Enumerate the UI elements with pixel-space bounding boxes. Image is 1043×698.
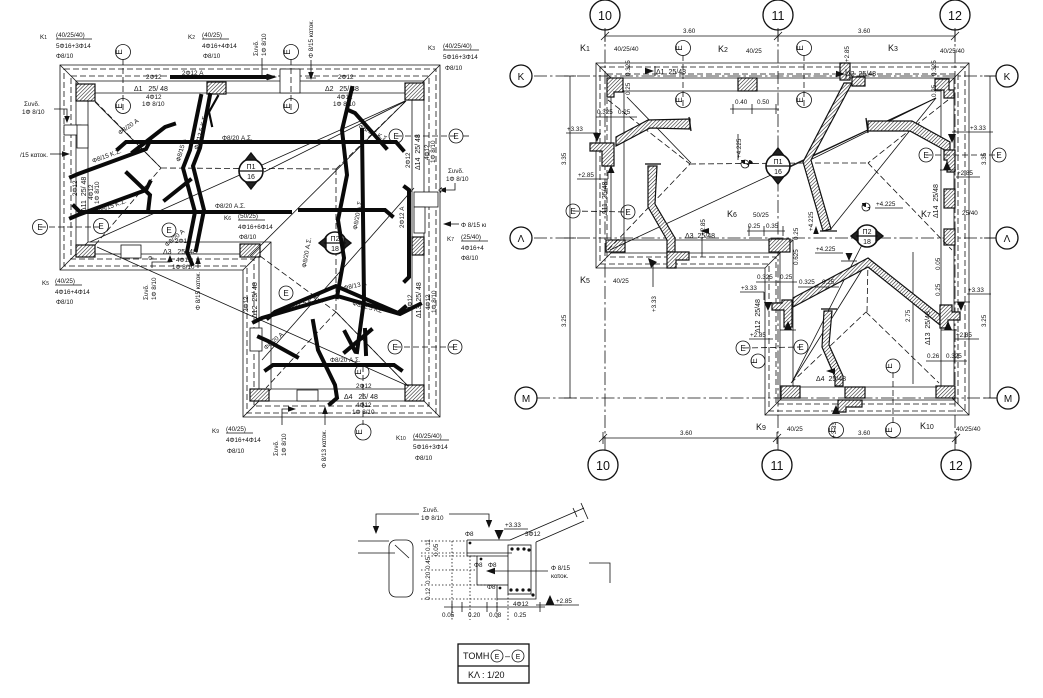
level +2.85 section xyxy=(536,595,579,605)
svg-text:2Φ12: 2Φ12 xyxy=(338,74,354,81)
beam D2 top pieces xyxy=(840,63,865,86)
svg-text:16: 16 xyxy=(247,174,255,181)
svg-text:Φ8/10: Φ8/10 xyxy=(203,53,221,60)
grid line K horizontal xyxy=(534,75,996,77)
ridge horizontal xyxy=(161,168,336,169)
svg-text:4Φ16+4Φ14: 4Φ16+4Φ14 xyxy=(202,43,237,50)
svg-text:+3.33: +3.33 xyxy=(968,287,984,294)
svg-text:0.08: 0.08 xyxy=(489,612,502,619)
svg-text:4Φ16+6Φ14: 4Φ16+6Φ14 xyxy=(238,224,273,231)
svg-text:0.325: 0.325 xyxy=(757,274,773,281)
svg-text:E: E xyxy=(355,429,364,434)
svg-text:Δ11 25/48: Δ11 25/48 xyxy=(602,182,609,215)
leader F8/15 katoch section xyxy=(486,563,610,583)
hip BR lower part xyxy=(336,312,408,386)
svg-text:Π1: Π1 xyxy=(774,159,783,166)
grid bubble 11 bottom xyxy=(762,450,792,480)
section circle E mid xyxy=(279,286,293,300)
svg-text:40/25: 40/25 xyxy=(746,48,762,55)
svg-text:0.25: 0.25 xyxy=(625,82,632,95)
label K7 right plan xyxy=(921,209,978,219)
dim 0.40 0.50 top xyxy=(730,99,779,114)
svg-text:0.325: 0.325 xyxy=(931,60,938,76)
labels D11-D14 vertical right plan xyxy=(602,182,940,345)
svg-text:3.60: 3.60 xyxy=(858,28,871,35)
svg-text:Δ14 25/ 48: Δ14 25/ 48 xyxy=(415,134,422,170)
bar bottom diag 2 xyxy=(345,330,371,352)
leader sind right xyxy=(438,168,469,193)
dim 0.325 0.25 top-left xyxy=(596,60,637,117)
svg-text:0.45: 0.45 xyxy=(425,556,432,569)
leader sind top-left xyxy=(22,101,70,123)
svg-text:+2.85: +2.85 xyxy=(844,46,851,62)
label K5 right plan xyxy=(580,275,629,285)
label K2 right plan xyxy=(718,44,762,55)
leader F8/15 katoch wing xyxy=(195,256,202,310)
thin diagonal beam lines xyxy=(90,101,414,386)
svg-text:Φ8/20 A.Σ.: Φ8/20 A.Σ. xyxy=(222,135,253,142)
section circle rotated-E wing xyxy=(750,354,765,368)
chevron left foot xyxy=(772,300,792,327)
svg-text:40/25: 40/25 xyxy=(787,426,803,433)
label block K1 xyxy=(40,32,92,60)
svg-text:50/25: 50/25 xyxy=(753,212,769,219)
label K1 right plan xyxy=(580,43,639,53)
svg-text:Φ 8/13 κατοκ.: Φ 8/13 κατοκ. xyxy=(321,429,328,468)
label K6 right plan xyxy=(727,209,785,236)
grid line M horizontal xyxy=(537,397,997,399)
dim 0.325 0.25 top-right xyxy=(931,60,938,97)
diagonal long TL-BR wing xyxy=(90,101,405,242)
svg-text:E: E xyxy=(115,49,124,54)
rebar dots top xyxy=(469,542,531,590)
svg-text:κατοκ.: κατοκ. xyxy=(551,573,569,580)
svg-text:Δ4 25/ 48: Δ4 25/ 48 xyxy=(344,394,378,401)
level +2.85 rotated D2 xyxy=(844,46,851,62)
svg-text:0.12: 0.12 xyxy=(425,587,432,600)
beam label D12 vertical notch edge xyxy=(243,282,259,318)
svg-text:+2.85: +2.85 xyxy=(556,598,572,605)
bar center tall zigzag 1 xyxy=(337,88,352,297)
svg-text:Φ8/20 A.Σ.: Φ8/20 A.Σ. xyxy=(330,357,361,364)
svg-text:K: K xyxy=(518,72,525,83)
beam TL end tick xyxy=(689,117,691,131)
svg-text:0.50: 0.50 xyxy=(757,99,770,106)
svg-text:1Φ 8/10: 1Φ 8/10 xyxy=(431,290,438,313)
svg-text:10: 10 xyxy=(598,9,612,23)
svg-text:1Φ 8/10: 1Φ 8/10 xyxy=(430,140,437,163)
svg-text:0.25: 0.25 xyxy=(822,279,835,286)
svg-text:+4.225: +4.225 xyxy=(808,211,815,231)
svg-text:1Φ 8/10: 1Φ 8/10 xyxy=(281,433,288,456)
hip TR xyxy=(336,101,406,169)
wall dashed ring 2 right plan xyxy=(607,74,958,404)
svg-text:Φ8: Φ8 xyxy=(465,531,474,538)
grid bubble M left xyxy=(515,387,537,409)
svg-text:Δ2 25/ 48: Δ2 25/ 48 xyxy=(325,86,359,93)
section circles E right pair upper xyxy=(389,129,470,143)
svg-text:2Φ12: 2Φ12 xyxy=(72,180,79,196)
bar annotation texts xyxy=(91,70,406,364)
beam TR end tick xyxy=(866,118,868,133)
svg-text:11: 11 xyxy=(772,9,785,23)
level node +4.225 P2 xyxy=(862,201,903,211)
beam label D2 xyxy=(325,74,359,108)
column K9 bottom-left of lower part xyxy=(250,389,269,401)
svg-text:Δ13 25/ 48: Δ13 25/ 48 xyxy=(416,282,423,318)
opening rect bottom band xyxy=(297,390,318,401)
svg-text:(40/25/40): (40/25/40) xyxy=(413,433,442,440)
label K3 right plan xyxy=(888,43,965,55)
svg-text:K10: K10 xyxy=(396,435,406,442)
svg-text:E: E xyxy=(885,427,894,432)
svg-text:2Φ12 A: 2Φ12 A xyxy=(399,206,406,228)
stirrup rect xyxy=(508,545,531,594)
hatched chevron beam bottom xyxy=(793,258,940,325)
level +2.85 bottom-left xyxy=(749,321,796,339)
bar 2F12A top xyxy=(172,74,277,80)
svg-text:–: – xyxy=(505,651,510,661)
hip notch corner xyxy=(260,256,336,312)
column K3 top-right xyxy=(405,83,424,100)
svg-text:Φ8/10: Φ8/10 xyxy=(239,234,257,241)
hip BL lower part xyxy=(266,312,336,388)
node P1 xyxy=(239,153,263,189)
leader sind with brackets xyxy=(373,507,492,534)
chevron right foot xyxy=(940,305,960,328)
svg-text:Δ12 25/ 48: Δ12 25/ 48 xyxy=(252,282,259,318)
node P2 right plan xyxy=(851,225,883,247)
svg-text:3.60: 3.60 xyxy=(683,28,696,35)
beam label D1 xyxy=(134,74,168,108)
svg-text:5Φ16+3Φ14: 5Φ16+3Φ14 xyxy=(56,43,91,50)
svg-text:Π1: Π1 xyxy=(247,164,256,171)
svg-text:E: E xyxy=(570,207,575,216)
svg-text:4Φ16+4Φ14: 4Φ16+4Φ14 xyxy=(226,437,261,444)
svg-text:Λ: Λ xyxy=(1004,234,1011,245)
section circles rotated-E top pair 2 xyxy=(283,45,298,115)
svg-text:+4.225: +4.225 xyxy=(816,246,836,253)
label K10 right plan xyxy=(920,421,981,433)
beam band outer right plan xyxy=(611,78,954,400)
svg-text:E: E xyxy=(393,132,398,141)
section circles rotated-E bottom xyxy=(354,365,371,440)
svg-text:18: 18 xyxy=(331,246,339,253)
label block K5 xyxy=(42,278,90,306)
leader F8/15 katoch left xyxy=(20,151,70,159)
svg-text:40/25/40: 40/25/40 xyxy=(614,46,639,53)
svg-text:K2: K2 xyxy=(188,34,195,41)
beam TL foot xyxy=(590,143,614,166)
svg-text:4Φ12: 4Φ12 xyxy=(356,402,372,409)
svg-text:φ: φ xyxy=(147,256,154,260)
grid bubble L left xyxy=(510,227,532,249)
svg-text:2Φ12: 2Φ12 xyxy=(405,152,412,168)
vertical dim texts xyxy=(425,539,440,600)
svg-text:Δ11 25/ 48: Δ11 25/ 48 xyxy=(81,177,88,212)
dim 0.325 0.25 mid lower xyxy=(798,279,839,287)
opening rects left band xyxy=(64,125,81,135)
svg-text:Φ8: Φ8 xyxy=(488,562,497,569)
svg-text:0.25: 0.25 xyxy=(618,109,631,116)
svg-text:E: E xyxy=(166,226,171,235)
bar F8/20 AS lower long xyxy=(266,365,401,370)
bar mid-left short xyxy=(165,180,190,200)
svg-text:Φ 8/15 κατοκ.: Φ 8/15 κατοκ. xyxy=(308,19,315,58)
column K7 right edge xyxy=(412,237,424,255)
column M-row right right plan xyxy=(936,386,955,398)
grid bubble L right xyxy=(996,227,1018,249)
bar bottom short vertical xyxy=(345,332,355,351)
level +2.85 rotated D3 xyxy=(700,219,707,257)
svg-text:E: E xyxy=(452,343,457,352)
bottom dim line xyxy=(442,602,545,619)
roof dashed hip/ridge lines xyxy=(95,101,408,388)
grid bubble 10 top xyxy=(590,0,620,30)
svg-text:1Φ 8/10: 1Φ 8/10 xyxy=(352,409,375,416)
column K2 top-middle xyxy=(207,82,226,94)
column right edge mid right plan xyxy=(944,189,955,208)
column K5-row wing bottom-left xyxy=(76,245,95,257)
level +2.85 top-right xyxy=(940,161,980,177)
svg-text:0.25: 0.25 xyxy=(793,227,800,240)
svg-text:0.25: 0.25 xyxy=(931,84,938,97)
svg-text:E: E xyxy=(453,132,458,141)
grid bubble M right xyxy=(997,387,1019,409)
svg-text:E: E xyxy=(516,654,521,661)
beam TL foot arrow xyxy=(608,165,615,173)
grid bubble K left xyxy=(510,65,532,87)
svg-text:E: E xyxy=(675,97,684,102)
svg-text:Συνδ.: Συνδ. xyxy=(24,101,40,108)
svg-text:E: E xyxy=(354,369,363,374)
beam label D3 xyxy=(163,238,197,271)
svg-text:+2.85: +2.85 xyxy=(956,332,972,339)
bar chevron 2 F8/12.5KS xyxy=(254,296,420,322)
diagonal TR to notch xyxy=(250,101,406,256)
svg-text:3.25: 3.25 xyxy=(981,314,988,327)
svg-text:Π2: Π2 xyxy=(331,236,340,243)
label block K7 xyxy=(447,234,488,262)
grid bubble K right xyxy=(996,65,1018,87)
beam label D13 vertical right edge lower xyxy=(407,282,438,318)
label block K9 xyxy=(212,426,261,455)
beam band inner right plan xyxy=(624,91,941,387)
beam D3 foot xyxy=(667,252,689,268)
svg-text:11: 11 xyxy=(771,459,784,473)
svg-text:+2.85: +2.85 xyxy=(578,172,594,179)
bar pair left diagonals xyxy=(71,141,150,177)
level mark +4.225 rotated near P1 xyxy=(808,211,819,234)
bar F8/20 AS upper long xyxy=(118,142,403,150)
label K9 right plan xyxy=(756,422,803,433)
svg-text:Συνδ.: Συνδ. xyxy=(273,440,280,456)
svg-text:E: E xyxy=(392,343,397,352)
column L-row right edge right plan xyxy=(944,229,955,245)
bar mid-left bent xyxy=(127,173,150,212)
svg-text:Φ8/10: Φ8/10 xyxy=(56,299,74,306)
svg-text:E: E xyxy=(98,222,103,231)
bar bottom S xyxy=(313,321,337,404)
svg-text:+3.33: +3.33 xyxy=(741,285,757,292)
svg-text:1Φ 8/10: 1Φ 8/10 xyxy=(94,181,101,204)
svg-text:(40/25): (40/25) xyxy=(55,278,75,285)
beam D4 top T xyxy=(821,308,837,310)
svg-text:Συνδ.: Συνδ. xyxy=(423,507,439,514)
svg-text:12: 12 xyxy=(949,459,963,473)
svg-text:(40/25/40): (40/25/40) xyxy=(56,32,85,39)
bar right edge vertical xyxy=(405,187,409,281)
svg-text:E: E xyxy=(740,344,745,353)
bar bottom vertical 2 xyxy=(365,330,366,354)
wall outer boundary xyxy=(60,65,440,417)
beam section outline xyxy=(510,508,584,540)
svg-text:K1: K1 xyxy=(40,34,47,41)
svg-text:+3.33: +3.33 xyxy=(567,126,583,133)
column section rounded rect xyxy=(389,540,413,597)
svg-text:0.11: 0.11 xyxy=(425,539,432,551)
level node +4.225 mid xyxy=(736,134,753,168)
svg-text:4Φ12: 4Φ12 xyxy=(337,94,353,101)
svg-text:M: M xyxy=(1004,394,1012,405)
svg-text:K5: K5 xyxy=(42,280,49,287)
section circles E right plan left pair xyxy=(566,204,635,219)
svg-text:2Φ12: 2Φ12 xyxy=(243,296,250,312)
beam label D14 vertical right edge xyxy=(405,134,437,170)
section circles E right plan lower-left pair xyxy=(736,340,808,355)
svg-text:K9: K9 xyxy=(212,428,219,435)
svg-text:4Φ16+4: 4Φ16+4 xyxy=(461,245,484,252)
section circle rotated-E bottom mid xyxy=(828,423,843,438)
bar TL short diagonal xyxy=(133,124,174,152)
svg-text:0.325: 0.325 xyxy=(597,109,613,116)
svg-text:Λ: Λ xyxy=(518,234,525,245)
svg-text:E: E xyxy=(625,208,630,217)
svg-text:Φ8/10: Φ8/10 xyxy=(415,455,433,462)
svg-text:E: E xyxy=(750,358,759,363)
node P2 xyxy=(319,232,351,254)
svg-text:2Φ12: 2Φ12 xyxy=(146,74,162,81)
diagonal long wing to BR xyxy=(97,247,406,385)
node P1 right plan xyxy=(766,148,790,184)
level +3.33 bottom mid rotated xyxy=(831,405,840,438)
corner miters right plan xyxy=(596,63,969,415)
column K10 bottom-right xyxy=(405,385,424,401)
opening rect top band xyxy=(280,69,300,93)
level +3.33 bottom-right chevron xyxy=(954,287,991,311)
corner miter lines xyxy=(60,65,440,417)
leader F8/15 katoch top rotated xyxy=(306,19,316,80)
level +2.85 top-left xyxy=(577,172,608,179)
svg-text:3.60: 3.60 xyxy=(858,430,871,437)
svg-text:(25/40): (25/40) xyxy=(461,234,481,241)
svg-text:0.25: 0.25 xyxy=(780,274,793,281)
svg-text:4Φ12: 4Φ12 xyxy=(176,257,192,264)
bar TR diagonal xyxy=(348,110,386,148)
grid line 10 vertical xyxy=(604,28,606,452)
svg-text:0.40: 0.40 xyxy=(735,99,748,106)
svg-text:Δ12 25/48: Δ12 25/48 xyxy=(755,299,762,333)
svg-text:Συνδ.: Συνδ. xyxy=(448,168,464,175)
svg-text:Φ8/20 A.Σ.: Φ8/20 A.Σ. xyxy=(215,203,246,210)
level +2.85 bottom-right xyxy=(941,321,979,339)
bottom dimension line xyxy=(599,432,960,444)
section circles E right pair lower xyxy=(388,340,462,354)
svg-text:Συνδ.: Συνδ. xyxy=(143,284,150,300)
section circles rotated-E bottom right plan xyxy=(885,359,900,438)
svg-text:3.35: 3.35 xyxy=(561,152,568,165)
hatched diagonal beam D2 xyxy=(803,83,852,231)
roof dashed lines right plan xyxy=(608,100,952,383)
svg-text:+3.33: +3.33 xyxy=(505,522,521,529)
svg-text:E: E xyxy=(495,654,500,661)
svg-text:2Φ12: 2Φ12 xyxy=(356,383,372,390)
svg-text:25/40: 25/40 xyxy=(962,210,978,217)
svg-text:0.325: 0.325 xyxy=(799,279,815,286)
label block K2 xyxy=(188,32,237,60)
leader F8/13 katoch bottom xyxy=(321,406,328,468)
svg-text:E: E xyxy=(115,103,124,108)
svg-text:1Φ 8/10: 1Φ 8/10 xyxy=(333,101,356,108)
svg-text:+4.225: +4.225 xyxy=(876,201,896,208)
section circles E right plan right pair xyxy=(919,148,1006,162)
svg-text:Φ8/10: Φ8/10 xyxy=(445,65,463,72)
svg-text:Δ1 25/ 48: Δ1 25/ 48 xyxy=(134,86,168,93)
grid line L horizontal xyxy=(534,237,996,239)
svg-text:M: M xyxy=(522,394,530,405)
svg-text:E: E xyxy=(37,223,42,232)
grid bubble 12 top xyxy=(940,0,970,30)
beam D2 bottom T xyxy=(820,230,837,232)
title box xyxy=(458,644,529,683)
svg-text:K7: K7 xyxy=(447,236,454,243)
beam band inner line xyxy=(88,93,412,389)
svg-text:Φ 8/15 κι: Φ 8/15 κι xyxy=(461,222,487,229)
section circle E mid-left xyxy=(162,223,176,237)
svg-text:Δ3 25/48: Δ3 25/48 xyxy=(685,233,715,240)
svg-text:3Φ12: 3Φ12 xyxy=(525,531,541,538)
beam label D11 vertical left edge xyxy=(72,177,101,212)
svg-text:Δ3 25/ 48: Δ3 25/ 48 xyxy=(163,249,197,256)
column M-row left right plan xyxy=(781,386,800,398)
bar F8/20 AS middle long xyxy=(74,206,392,216)
svg-text:1Φ 8/10: 1Φ 8/10 xyxy=(142,101,165,108)
svg-text:3.60: 3.60 xyxy=(680,430,693,437)
wall dashed ring 1 xyxy=(64,69,436,413)
hip TL xyxy=(95,101,161,168)
wall dashed ring 1 right plan xyxy=(600,67,965,411)
svg-text:Δ14 25/48: Δ14 25/48 xyxy=(933,184,940,218)
opening rect wing bottom band xyxy=(121,245,141,258)
slab soffit line xyxy=(467,552,512,554)
svg-text:1Φ 8/10: 1Φ 8/10 xyxy=(446,176,469,183)
svg-text:E: E xyxy=(885,363,894,368)
svg-text:16: 16 xyxy=(774,169,782,176)
beam TR foot xyxy=(944,150,955,172)
level +3.33 bottom-left chevron xyxy=(740,285,772,311)
svg-text:10: 10 xyxy=(596,459,610,473)
svg-text:+3.33: +3.33 xyxy=(831,422,838,438)
right dimension line xyxy=(984,76,996,398)
svg-text:1Φ 8/10: 1Φ 8/10 xyxy=(172,264,195,271)
svg-text:2Φ12: 2Φ12 xyxy=(407,294,414,310)
svg-text:0.325: 0.325 xyxy=(946,353,962,360)
svg-text:40/25: 40/25 xyxy=(613,278,629,285)
svg-text:K3: K3 xyxy=(428,45,435,52)
svg-text:3.35: 3.35 xyxy=(981,152,988,165)
thin diagonals right plan xyxy=(610,97,936,382)
beam D4 foot xyxy=(838,387,865,412)
